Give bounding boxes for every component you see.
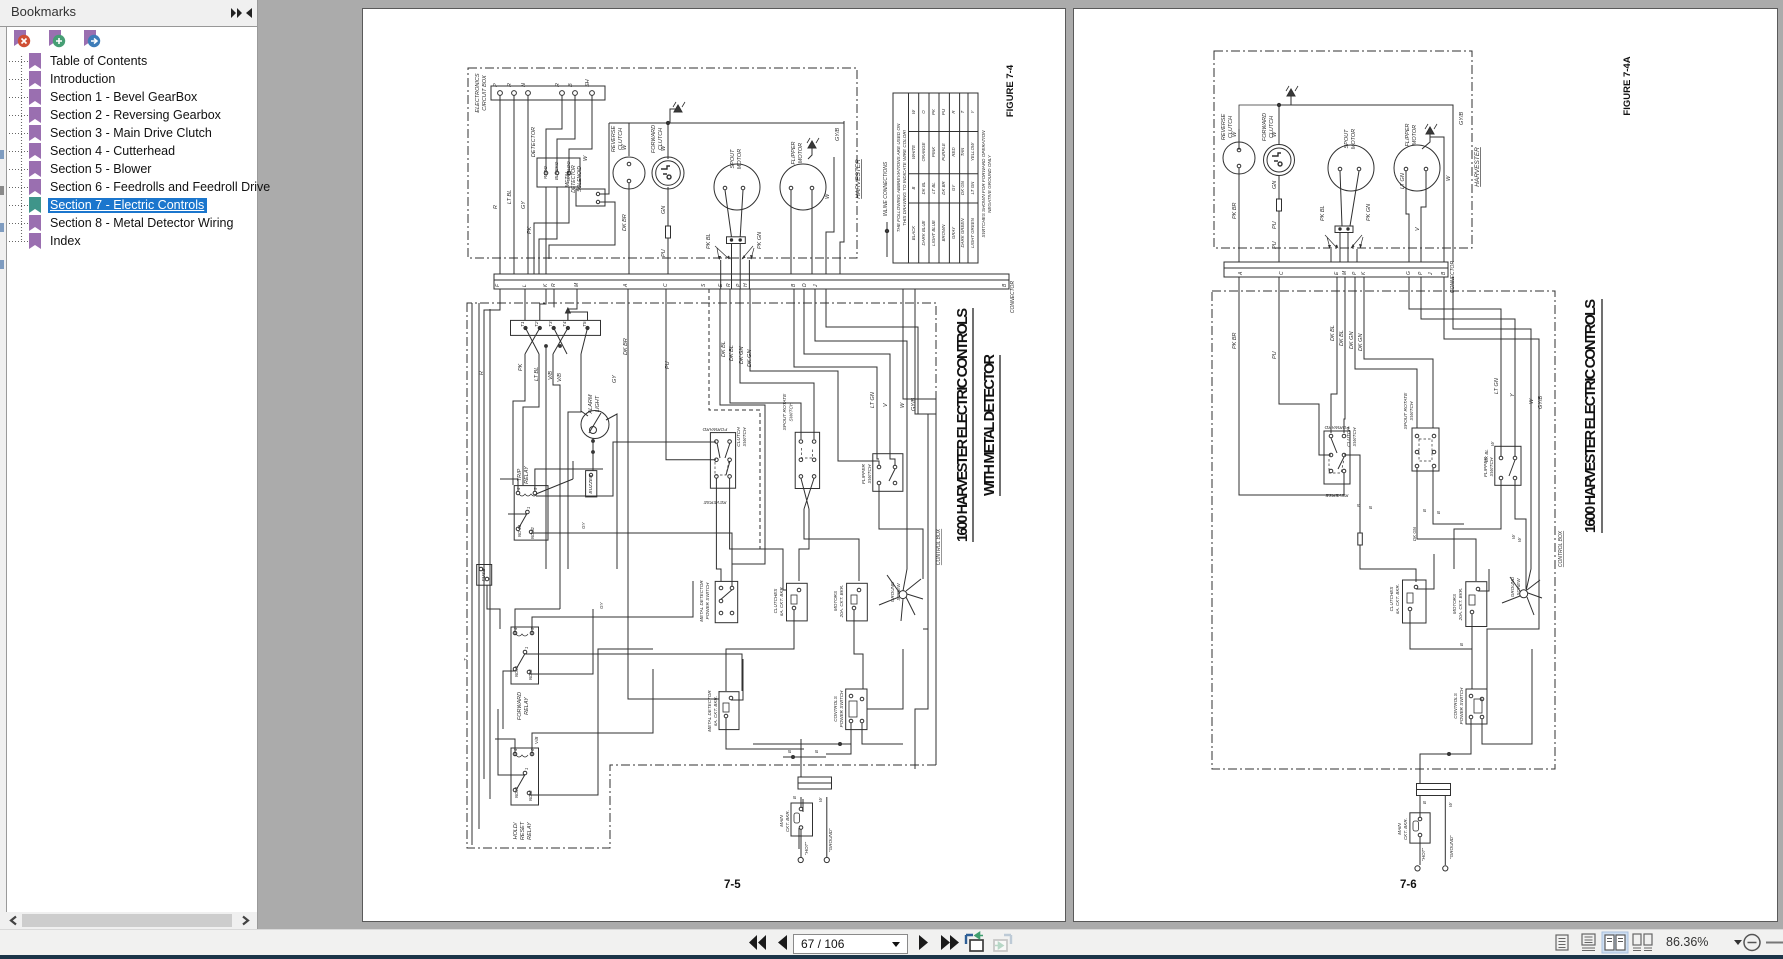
svg-text:W: W [825,193,831,199]
svg-text:7-6: 7-6 [1400,879,1417,891]
prev view [966,933,983,952]
wires circuit box to detector [546,95,592,171]
svg-text:CKT. BKR.: CKT. BKR. [785,810,790,832]
svg-text:DK GN: DK GN [1412,526,1417,541]
svg-text:W: W [661,145,667,151]
svg-text:PU: PU [1272,351,1278,359]
svg-text:R: R [551,283,557,287]
svg-text:CLUTCH: CLUTCH [736,427,742,447]
reverse clutch leads [1238,129,1240,262]
reverse clutch leads [628,123,630,274]
svg-text:W: W [1490,441,1495,446]
main ckt bkr [1410,813,1430,843]
svg-text:BLACK: BLACK [911,225,916,240]
wires: connector down-left region [484,289,500,629]
svg-text:HOLD/: HOLD/ [513,822,519,839]
svg-text:FIGURE 7-4A: FIGURE 7-4A [1622,56,1633,115]
svg-text:R: R [507,83,513,87]
clutches 6A ckt bkr [1403,580,1427,623]
svg-text:LT BL: LT BL [534,367,540,381]
svg-text:DK GN: DK GN [1349,332,1355,349]
flipper wires staircase [1409,277,1515,456]
layout icons right [1545,929,1783,956]
svg-text:SWITCHES SHOWN FOR FORWARD OPE: SWITCHES SHOWN FOR FORWARD OPERATION [981,130,986,238]
cascade wires B D J B right side [794,289,879,459]
svg-text:G: G [1406,271,1412,275]
svg-text:B: B [1436,511,1441,514]
svg-text:T4: T4 [562,321,568,327]
terminal R2 [560,91,565,96]
wires relays interconnect [472,303,490,845]
svg-text:B: B [792,796,797,799]
T-strip feeder wires from connector [525,289,577,320]
alarm light [581,411,609,439]
svg-text:LT GN: LT GN [970,181,975,194]
svg-text:MOTOR: MOTOR [798,143,804,163]
svg-text:PU: PU [941,108,946,115]
svg-text:B: B [814,750,819,753]
relay pin labels [513,487,538,801]
junction dots under strip [545,345,548,348]
big title 1600 harvester electric controls [955,308,998,542]
svg-text:DK GN: DK GN [747,350,753,367]
svg-text:PK BR: PK BR [1232,202,1238,219]
svg-text:PINK: PINK [931,146,936,157]
svg-text:GRAY: GRAY [951,226,956,239]
svg-text:YELLOW: YELLOW [970,142,975,161]
bookmark tree [0,52,258,252]
svg-text:PK GN: PK GN [757,232,763,249]
svg-text:1600 HARVESTER ELECTRIC CONTRO: 1600 HARVESTER ELECTRIC CONTROLS [1583,299,1599,533]
svg-text:MOTORS: MOTORS [833,590,838,611]
svg-text:W: W [911,109,916,114]
svg-text:P: P [493,83,499,87]
svg-text:CONNECTOR: CONNECTOR [1010,281,1016,314]
svg-text:CONTROLS: CONTROLS [833,695,838,721]
svg-text:SWITCH: SWITCH [867,464,873,483]
svg-text:NC02: NC02 [528,790,533,801]
svg-text:PU: PU [1272,241,1278,249]
svg-text:PU: PU [665,361,671,369]
forward clutch leads [1278,105,1280,262]
svg-text:V/B: V/B [557,373,563,382]
svg-text:POWER SWITCH: POWER SWITCH [1459,687,1464,724]
svg-text:DK BL: DK BL [1330,325,1336,341]
svg-text:PU: PU [1272,221,1278,229]
svg-text:SPOUT: SPOUT [730,149,736,169]
svg-text:"HOT": "HOT" [804,842,809,855]
svg-text:P: P [736,283,742,287]
forward clutch leads + ground [667,123,669,274]
svg-text:R: R [555,83,561,87]
svg-text:GY: GY [521,201,527,209]
forward relay box [511,627,539,684]
B wires bottom junctions [753,744,851,757]
flipper ground [808,147,812,159]
svg-text:Y: Y [970,109,975,113]
svg-text:MOTOR: MOTOR [737,149,743,169]
svg-text:B: B [1459,643,1464,646]
svg-text:B: B [787,750,792,753]
left-edge cropped tab icons [0,120,6,420]
svg-text:WHITE: WHITE [911,145,916,159]
flipper switch [873,454,903,492]
svg-text:R: R [479,371,485,375]
svg-text:SWITCH: SWITCH [1409,401,1415,420]
bookmark toolbar icons [0,27,258,55]
svg-text:REVERSE: REVERSE [611,126,617,153]
svg-text:W: W [1511,534,1516,539]
svg-text:THE FOLLOWING ABBREVIATIONS AR: THE FOLLOWING ABBREVIATIONS ARE USED ON [896,123,901,232]
svg-text:K: K [543,283,549,287]
svg-text:6A. CKT. BKR.: 6A. CKT. BKR. [779,586,784,616]
svg-text:INLINE CONNECTIONS: INLINE CONNECTIONS [883,161,889,216]
svg-text:"GROUND": "GROUND" [828,828,833,852]
svg-text:LIGHT BLUE: LIGHT BLUE [931,220,936,246]
svg-text:LT GN: LT GN [1494,378,1500,394]
svg-text:REVERSE: REVERSE [1221,114,1227,141]
first page button [749,935,757,950]
svg-text:W: W [1446,175,1452,181]
svg-text:L: L [522,284,528,287]
svg-text:W: W [1529,398,1535,404]
svg-text:MOTOR: MOTOR [1412,125,1418,145]
W / GY-B staircase [1444,277,1539,689]
svg-text:20A. CKT. BKR.: 20A. CKT. BKR. [839,585,844,619]
svg-text:FORWARD: FORWARD [517,692,523,720]
fuse box [477,565,492,586]
svg-text:FORWARD: FORWARD [1324,424,1349,430]
svg-text:NC 02: NC 02 [530,526,535,539]
svg-text:FORWARD: FORWARD [1262,113,1268,141]
connector letters [1238,270,1447,276]
svg-text:P: P [1352,271,1358,275]
spout wires staircase [1331,277,1433,433]
svg-text:DK BL: DK BL [1484,449,1489,462]
svg-text:E: E [1334,271,1340,275]
svg-text:MOTOR: MOTOR [1351,129,1357,149]
svg-text:DK GN: DK GN [960,180,965,195]
ground terminal [824,857,829,862]
terminal SH [590,91,595,96]
motors 20A ckt bkr [847,583,868,621]
svg-text:GROUND: GROUND [890,581,895,602]
svg-text:R: R [951,110,956,114]
svg-text:NEGATIVE GROUND ONLY: NEGATIVE GROUND ONLY [987,154,992,213]
forward clutch [652,157,684,189]
metal detector solenoid box [576,189,605,206]
svg-text:PK BL: PK BL [706,233,712,249]
svg-text:PU: PU [661,249,667,257]
svg-text:SOLENOID: SOLENOID [577,166,583,192]
svg-text:T5: T5 [582,321,588,327]
svg-text:SH: SH [585,79,591,87]
svg-text:DK BR: DK BR [622,214,628,231]
svg-text:SPOUT ROTATE: SPOUT ROTATE [1403,392,1409,429]
svg-text:FLIPPER: FLIPPER [1405,124,1411,147]
svg-text:B: B [1368,506,1373,509]
svg-text:C: C [663,283,669,287]
svg-text:DK GN: DK GN [1358,334,1364,351]
breaker interconnect [1410,554,1489,659]
trip relay box [514,486,548,540]
svg-text:RELAY: RELAY [524,697,530,715]
reverse clutch [1223,142,1255,174]
svg-text:20A. CKT. BKR.: 20A. CKT. BKR. [1458,588,1463,622]
svg-text:HARVESTER: HARVESTER [855,159,862,199]
svg-text:SCREW: SCREW [896,583,901,601]
svg-text:POWER SWITCH: POWER SWITCH [705,582,710,619]
connector bar [1224,262,1448,277]
svg-text:DK BR: DK BR [941,180,946,194]
svg-text:CONTROL BOX: CONTROL BOX [936,528,942,565]
svg-text:RELAY: RELAY [524,466,530,484]
terminal N [526,91,531,96]
svg-text:W: W [900,402,906,408]
svg-text:V: V [883,402,889,407]
svg-text:CONNECTOR: CONNECTOR [1450,261,1456,294]
svg-text:T3: T3 [548,321,554,327]
svg-text:ALARM: ALARM [588,394,594,414]
svg-text:RESET: RESET [520,821,526,840]
ground bus wire [609,109,844,123]
solenoid W wire [600,123,609,194]
svg-text:J: J [813,284,819,288]
svg-text:LT BL: LT BL [507,190,513,204]
svg-text:7-5: 7-5 [724,879,741,891]
wires from circuit box P R N [500,95,528,274]
svg-text:R: R [726,283,732,287]
svg-text:GY: GY [612,375,618,383]
metal detector 6A ckt bkr [719,692,739,730]
svg-text:LT BL: LT BL [931,182,936,194]
svg-text:LIGHT GREEN: LIGHT GREEN [970,217,975,248]
svg-text:DARK GREEN: DARK GREEN [960,218,965,248]
svg-text:BLACKO: BLACKO [554,161,559,180]
svg-text:P: P [1418,271,1424,275]
svg-text:K: K [1361,271,1367,275]
svg-text:V/B: V/B [534,737,539,744]
motors 20A ckt bkr [1466,582,1487,627]
svg-text:T: T [463,657,468,661]
bookmarks panel [0,0,258,929]
svg-text:FUSE: FUSE [481,568,487,582]
terminal R [512,91,517,96]
svg-text:6A. CKT. BKR.: 6A. CKT. BKR. [713,696,718,726]
svg-text:TAN: TAN [960,147,965,156]
trip relay wires [508,442,732,586]
svg-text:FORWARD: FORWARD [702,426,727,432]
svg-text:C: C [1279,271,1285,275]
svg-text:1: 1 [526,507,531,509]
inline connector spout [1335,226,1353,233]
svg-text:W: W [1232,131,1238,137]
svg-text:PK: PK [527,226,533,234]
svg-text:DETECTOR: DETECTOR [531,127,537,157]
svg-text:FLIPPER: FLIPPER [791,142,797,165]
svg-text:DK BR: DK BR [623,338,629,355]
svg-text:FIGURE 7-4: FIGURE 7-4 [1005,64,1016,117]
svg-text:TRIP: TRIP [517,468,523,481]
svg-text:GY: GY [951,184,956,191]
svg-text:MAIN: MAIN [1397,823,1402,835]
svg-text:R: R [493,205,499,209]
svg-text:ORANGE: ORANGE [921,142,926,161]
svg-text:"GROUND": "GROUND" [1449,835,1454,859]
ground screw [1520,590,1528,598]
last [941,935,950,950]
svg-text:A: A [1238,271,1244,276]
wires below connector: PK BR [1239,277,1344,495]
svg-text:PK GN: PK GN [1366,204,1372,221]
ground terminal [1443,866,1448,871]
svg-text:NC02: NC02 [528,669,533,680]
svg-text:BROWN: BROWN [941,224,946,242]
svg-text:B: B [568,83,574,87]
svg-text:WITH METAL DETECTOR: WITH METAL DETECTOR [982,353,998,496]
flipper leads [1406,171,1426,262]
dashed S wire [709,289,760,549]
svg-text:T2: T2 [534,321,540,327]
W wire from ground bus [1291,105,1453,262]
svg-text:PURPLE: PURPLE [941,143,946,161]
svg-text:GY/B: GY/B [835,128,841,141]
svg-text:NO03: NO03 [514,786,519,798]
svg-text:W: W [622,144,628,150]
svg-text:SPOUT ROTATE: SPOUT ROTATE [782,393,788,430]
svg-text:S: S [701,283,707,287]
svg-text:W: W [583,155,589,161]
controls power switch [846,689,867,730]
svg-text:CLUTCHES: CLUTCHES [773,588,778,614]
flipper ground [1422,133,1430,149]
svg-text:SCREW: SCREW [1516,578,1521,596]
wires detector down [534,187,569,274]
buzzer box [586,471,597,497]
harvester dashed box [468,68,857,258]
svg-text:CIRCUIT BOX: CIRCUIT BOX [482,75,488,111]
electronics circuit box terminal strip [491,86,605,100]
PU wire [1279,277,1331,455]
bottom toolbar [0,929,1783,957]
clutches 6A ckt bkr [787,583,808,621]
svg-text:ELECTRONICS: ELECTRONICS [475,73,481,112]
control box dashed outline [467,303,936,848]
terminal B [573,91,578,96]
svg-text:W: W [818,797,823,802]
svg-text:B: B [1422,509,1427,512]
svg-text:5: 5 [533,487,538,490]
T-strip cross wires below [525,328,588,354]
svg-text:DK BL: DK BL [921,181,926,194]
svg-text:NO 03: NO 03 [517,524,522,537]
svg-text:GY/B: GY/B [1538,396,1544,409]
svg-text:DK BL: DK BL [729,345,735,361]
svg-text:T: T [960,110,965,113]
svg-text:NO03: NO03 [514,665,519,677]
svg-text:BUZZER: BUZZER [588,474,594,494]
svg-text:GY: GY [581,521,586,529]
clutch switch [1324,431,1350,484]
flipper leads [791,190,812,274]
big title [1583,299,1599,533]
wire PU from connector C down [666,289,716,460]
svg-text:DK BL: DK BL [721,341,727,357]
svg-text:CLUTCH: CLUTCH [1346,427,1352,447]
spout motor [714,164,760,210]
svg-text:SWITCH: SWITCH [1352,427,1358,446]
svg-text:V/B: V/B [548,371,554,380]
svg-text:THIS DRAWING TO INDICATE WIRE: THIS DRAWING TO INDICATE WIRE COLOR! [902,129,907,226]
hot terminal [798,857,803,862]
svg-text:1600 HARVESTER ELECTRIC CONTRO: 1600 HARVESTER ELECTRIC CONTROLS [955,308,971,542]
legend rows [911,108,975,248]
main ckt bkr [791,803,813,836]
bottom scrollbar of panel [0,912,257,929]
bottom inline connector [798,777,832,783]
T4 arrow up [568,309,588,320]
svg-text:GN: GN [661,206,667,214]
svg-text:1: 1 [524,768,529,770]
svg-text:DK BL: DK BL [1339,330,1345,346]
T1-T5 terminal strip [511,320,601,335]
ground screw [899,591,907,599]
power switch to main bkr [1420,649,1532,783]
GY/B wire [840,121,844,274]
svg-text:METAL DETECTOR: METAL DETECTOR [699,580,704,622]
hold/reset relay box [511,748,539,805]
svg-text:D: D [802,283,808,287]
svg-text:PK: PK [518,363,524,371]
GY/B wire [1430,137,1444,262]
svg-text:B: B [1422,801,1427,804]
W wire [826,157,834,274]
svg-text:SWITCH: SWITCH [742,427,748,446]
terminal P [498,91,503,96]
svg-text:1: 1 [524,647,529,649]
wires lower-right W runs [867,289,936,709]
svg-text:METAL DETECTOR: METAL DETECTOR [707,690,712,732]
controls power switch [1466,689,1487,724]
svg-text:GN: GN [1272,181,1278,189]
svg-text:V: V [1415,226,1421,231]
svg-text:SWITCH: SWITCH [789,402,795,421]
wire DK BR from connector A down [628,289,719,699]
svg-text:N: N [521,83,527,87]
cascade wires E R P H down-right [720,289,765,581]
svg-text:LT GN: LT GN [870,392,876,408]
spout rotate switch [795,432,819,488]
svg-text:CLUTCHES: CLUTCHES [1389,586,1394,612]
svg-text:LIGHT: LIGHT [595,395,601,412]
svg-text:LT GN: LT GN [1400,173,1406,189]
svg-text:REVERSE: REVERSE [1325,492,1349,498]
svg-text:B: B [791,283,797,287]
svg-text:B: B [911,186,916,189]
svg-text:O: O [921,110,926,114]
hot terminal [1415,866,1420,871]
svg-text:PK: PK [931,108,936,115]
spout motor [1328,145,1374,191]
svg-text:6A. CKT. BKR.: 6A. CKT. BKR. [1395,584,1400,614]
ground symbol [1279,95,1291,105]
svg-text:HARVESTER: HARVESTER [1474,147,1481,187]
svg-text:SPOUT: SPOUT [1344,129,1350,149]
svg-text:CKT. BKR.: CKT. BKR. [1403,818,1408,840]
reverse clutch [613,157,645,189]
wires to breakers [716,478,923,590]
metal detector power switch [715,581,738,622]
